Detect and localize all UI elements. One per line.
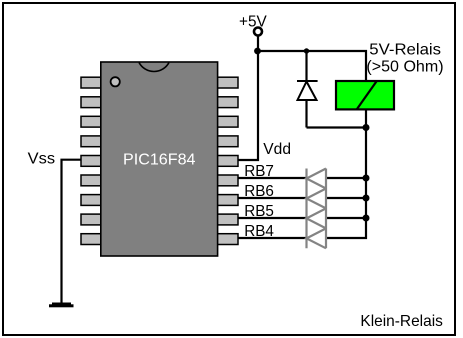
wire RB6 <box>238 197 366 199</box>
junction bus RB7 <box>363 175 370 182</box>
IC U1 PIC16F84 left pins 1-9 <box>81 77 102 244</box>
wire +5V rail to relay <box>258 51 366 80</box>
driver input rail (left gray bar) <box>305 169 307 249</box>
svg-text:Vdd: Vdd <box>263 141 291 158</box>
wire diode anode down <box>305 100 307 128</box>
svg-text:5V-Relais: 5V-Relais <box>369 42 441 59</box>
ground <box>49 303 74 308</box>
supply terminal +5V <box>254 28 262 36</box>
wire RB4 <box>238 237 307 239</box>
svg-text:Klein-Relais: Klein-Relais <box>360 313 443 330</box>
junction diode branch <box>304 48 309 53</box>
wire RB5 <box>238 217 366 219</box>
svg-text:RB6: RB6 <box>244 183 274 200</box>
junction +5V node <box>254 48 261 55</box>
IC U1 PIC16F84 right pins 10-18 <box>217 77 239 244</box>
junction bus RB6 <box>363 195 370 202</box>
svg-text:(>50 Ohm): (>50 Ohm) <box>366 59 443 76</box>
junction bus RB5 <box>363 215 370 222</box>
wire RB7 <box>238 177 366 179</box>
wire relay bottom to bus <box>365 110 367 128</box>
svg-text:PIC16F84: PIC16F84 <box>123 152 196 169</box>
wire Vss pin 5 to ground <box>62 160 82 303</box>
diode D1 flyback <box>297 81 318 100</box>
IC U1 PIC16F84 body <box>101 62 218 256</box>
buffer triangle RB5 <box>307 208 327 228</box>
wire flyback return to relay bottom <box>307 126 367 128</box>
buffer triangle RB4 <box>307 228 327 248</box>
buffer triangle RB6 <box>307 189 327 209</box>
wire Vdd pin 14 to +5V supply <box>238 36 258 161</box>
label 5V-Relais (>50 Ohm) <box>366 42 443 76</box>
svg-text:+5V: +5V <box>239 14 267 31</box>
wire diode cathode to rail <box>305 51 307 80</box>
relay K1 coil 5V-Relais <box>336 81 394 109</box>
junction relay bottom <box>363 124 370 131</box>
wire bus vertical <box>326 128 366 239</box>
svg-text:RB4: RB4 <box>244 223 274 240</box>
driver output rail (right gray bar) <box>325 169 327 249</box>
svg-text:RB7: RB7 <box>244 163 274 180</box>
svg-text:Vss: Vss <box>28 151 55 168</box>
buffer triangle RB7 <box>307 169 327 189</box>
svg-text:RB5: RB5 <box>244 203 274 220</box>
